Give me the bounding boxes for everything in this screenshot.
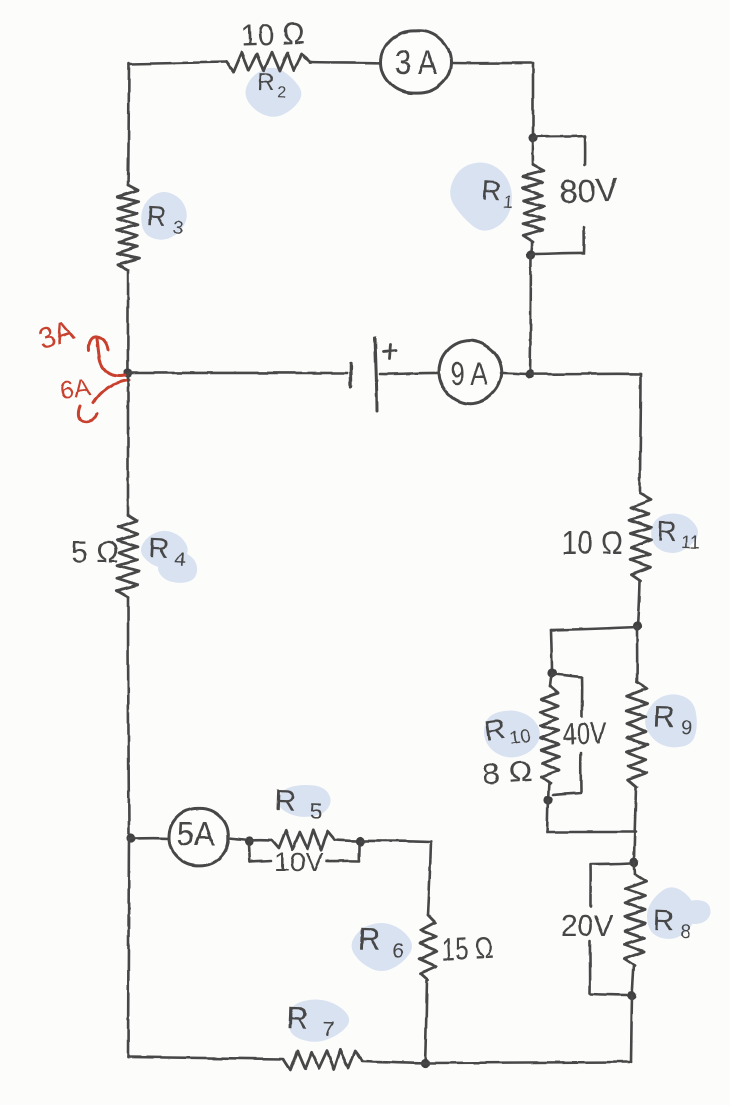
wire 3A to top-right corner [451,62,533,65]
wire junction to 5A ammeter [131,836,170,839]
wire R2 to 3A ammeter [310,62,383,63]
highlight blob for R8 label [647,887,696,939]
resistor R1 [522,165,544,242]
ammeter 9A [439,341,502,404]
resistor R4 [117,515,139,597]
wire lead into R1 [532,138,535,165]
wire corner down to R6 [428,842,431,915]
resistor R11 [629,493,651,581]
highlight blob for R4 label [141,531,188,568]
resistor R2 [226,52,310,72]
svg-text:10V: 10V [274,847,325,877]
wire R4 down to 5A row junction [128,597,129,838]
80V bracket top vertical tick [584,136,587,164]
40V bracket top horizontal [553,674,582,677]
10V bracket left vertical [249,845,250,862]
ammeter 3A [381,31,451,93]
node dot bottom junction under R6 [420,1058,429,1067]
resistor R5 [272,830,335,850]
svg-text:6A: 6A [58,373,92,405]
wire junction down to R9 [636,626,639,682]
svg-text:9 A: 9 A [451,355,488,392]
wire top-right corner down to R1 top node [532,63,535,138]
10V bracket right vertical [357,845,360,861]
40V bracket bottom horizontal [553,793,581,795]
node dot R8 bottom [627,990,636,999]
wire right corner down to R11 [640,374,641,493]
wire battery to 9A ammeter [380,373,440,374]
svg-text:5A: 5A [177,815,215,852]
node dot R8 top [629,857,638,866]
resistor R7 [284,1050,362,1070]
80V bracket bottom vertical tick [583,227,586,252]
wire R9 down to R8 top junction [634,787,636,862]
10V bracket left horizontal [250,861,271,862]
wire top-left segment [129,62,226,64]
svg-text:3 A: 3 A [395,44,437,82]
svg-text:40V: 40V [562,715,607,752]
node dot middle-right junction [525,369,534,378]
wire lead out of R10 [548,783,549,800]
wire R7 to bottom-left corner [128,1057,284,1059]
10V bracket right horizontal [327,860,358,863]
highlight blob for R7 label [289,999,349,1041]
svg-text:80V: 80V [558,171,619,211]
wire lead out of R8 [632,966,634,995]
wire 5A to R5 left node [229,838,248,840]
wire 9A to middle-right junction [501,373,530,374]
resistor R10 [540,686,559,783]
node dot middle-left junction [123,368,132,377]
highlight blob for R2 label [246,68,302,117]
highlight blob for R10 label [484,711,540,758]
node dot R5 left [244,836,253,845]
svg-text:10 Ω: 10 Ω [240,16,305,53]
node dot R10 top [547,668,556,677]
wire left middle junction down to R4 [127,373,130,515]
wire R1 bottom to middle-right junction [530,255,531,374]
node dot R1 top [528,133,537,142]
20V bracket bottom horizontal [591,994,627,995]
resistor R3 [117,185,139,270]
node dot below R11 [632,621,641,630]
wire R8 bottom down to bottom-right corner [631,995,632,1062]
wire bottom-right corner to junction [425,1062,631,1063]
battery negative plate (short) [349,364,353,387]
20V bracket left vertical upper [590,864,593,906]
svg-text:10 Ω: 10 Ω [561,524,623,561]
node dot R1 bottom [526,250,535,259]
80V bracket bottom horizontal [533,253,584,254]
wire lead into R8 [634,862,635,874]
highlight blob for R6 label [352,923,412,971]
wire lead into R10 [550,673,552,686]
red curved arrow for 3A [97,339,125,376]
wire left side upper (top corner down to R3) [128,63,129,185]
svg-text:8 Ω: 8 Ω [481,755,533,790]
ammeter 5A [169,808,228,866]
wire R11 to junction below [637,581,639,626]
svg-text:5 Ω: 5 Ω [71,536,119,569]
20V bracket top horizontal [592,863,630,864]
wire lead into R5 [249,838,272,841]
20V bracket left vertical lower [589,941,592,993]
wire R3 down to middle junction [127,270,130,373]
40V bracket bottom vertical [579,753,582,792]
node dot R10 bottom [543,795,552,804]
svg-text:20V: 20V [561,908,613,943]
wire R5 right node to corner [360,841,431,842]
wire lead out of R1 [531,242,532,255]
resistor R9 [626,682,647,787]
wire lead out of R5 [335,840,360,841]
svg-text:15 Ω: 15 Ω [441,930,495,968]
node dot 5A-row left junction [126,833,135,842]
resistor R6 [419,915,437,980]
wire R10 bottom down [547,800,548,832]
wire junction to R7 [362,1061,425,1063]
resistor R8 [624,874,646,966]
wire left side from 5A junction down to bottom-left corner [128,838,129,1057]
highlight blob for R1 label [450,162,512,230]
wire bottom of R10 loop to R9 branch [547,831,636,834]
wire R6 down to bottom junction [425,980,427,1063]
40V bracket top vertical [581,677,584,716]
highlight blob for R9 label [645,694,697,747]
80V bracket top horizontal [535,136,585,137]
highlight blob for R11 label [651,514,698,553]
battery plus sign [383,351,396,352]
wire middle junction to far right corner [530,373,641,376]
wire junction left to R10 branch top [551,627,637,630]
wire middle-left to battery [128,372,347,375]
node dot R5 right [355,836,364,845]
highlight blob for R5 label [277,785,330,817]
wire down to R10 top node [551,630,552,673]
highlight blob for R3 label [141,192,187,240]
red curved arrow for 6A [93,380,129,403]
battery positive plate (long) [375,338,377,411]
